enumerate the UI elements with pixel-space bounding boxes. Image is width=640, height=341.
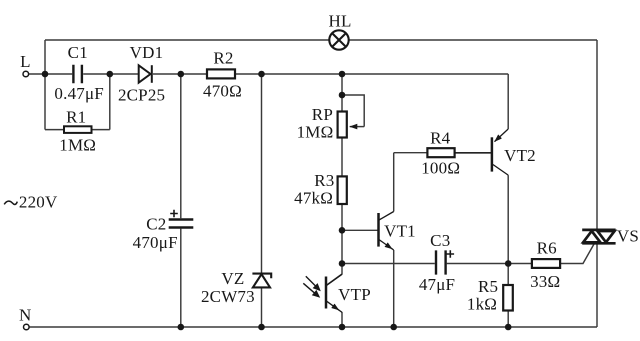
- svg-text:C3: C3: [430, 231, 450, 250]
- svg-text:R6: R6: [537, 239, 557, 258]
- svg-text:470μF: 470μF: [133, 233, 178, 252]
- svg-text:220V: 220V: [19, 193, 58, 212]
- svg-text:470Ω: 470Ω: [203, 82, 242, 101]
- svg-text:VS: VS: [617, 227, 639, 246]
- svg-text:47kΩ: 47kΩ: [294, 189, 333, 208]
- svg-text:1MΩ: 1MΩ: [59, 136, 96, 155]
- svg-text:VTP: VTP: [338, 285, 371, 304]
- svg-text:2CP25: 2CP25: [118, 86, 165, 105]
- svg-text:R1: R1: [66, 108, 86, 127]
- svg-text:L: L: [20, 52, 31, 71]
- svg-text:HL: HL: [328, 11, 351, 30]
- svg-text:VZ: VZ: [221, 269, 244, 288]
- svg-text:R5: R5: [478, 277, 498, 296]
- svg-text:1MΩ: 1MΩ: [297, 123, 334, 142]
- svg-text:100Ω: 100Ω: [421, 159, 460, 178]
- svg-text:R2: R2: [213, 49, 233, 68]
- svg-text:N: N: [19, 306, 31, 325]
- svg-text:0.47μF: 0.47μF: [54, 84, 104, 103]
- svg-text:VT1: VT1: [384, 222, 416, 241]
- svg-text:C2: C2: [146, 215, 166, 234]
- svg-text:R3: R3: [314, 171, 334, 190]
- svg-text:47μF: 47μF: [419, 275, 455, 294]
- svg-text:RP: RP: [312, 105, 333, 124]
- svg-text:1kΩ: 1kΩ: [467, 295, 497, 314]
- svg-text:VD1: VD1: [130, 43, 164, 62]
- svg-text:C1: C1: [68, 43, 88, 62]
- svg-text:2CW73: 2CW73: [201, 287, 255, 306]
- svg-text:33Ω: 33Ω: [530, 272, 560, 291]
- svg-text:R4: R4: [430, 128, 451, 147]
- svg-text:VT2: VT2: [504, 146, 536, 165]
